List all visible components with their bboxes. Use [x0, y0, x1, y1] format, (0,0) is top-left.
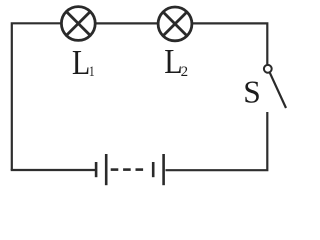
switch S pivot — [264, 65, 272, 73]
wire bottom-left segment to battery — [11, 169, 95, 171]
battery dashed omission between cells — [111, 168, 143, 171]
svg-text:L: L — [72, 44, 90, 83]
lamp L1 — [61, 7, 95, 41]
svg-text:2: 2 — [181, 64, 189, 80]
wire between lamps — [95, 22, 159, 24]
svg-text:S: S — [243, 75, 261, 110]
wire switch bottom to bottom-right corner — [166, 112, 268, 170]
battery cell 2 short plate (negative) — [152, 162, 155, 177]
battery cell 1 long plate (positive) — [105, 154, 108, 185]
battery cell 1 short plate (negative) — [95, 162, 98, 177]
svg-text:1: 1 — [89, 63, 95, 80]
battery cell 2 long plate (positive) — [162, 154, 165, 185]
wire top-left segment — [12, 23, 62, 170]
wire lamp L2 to top-right corner and down to switch — [192, 23, 267, 64]
lamp L2 — [158, 7, 192, 41]
switch S blade — [270, 73, 286, 108]
